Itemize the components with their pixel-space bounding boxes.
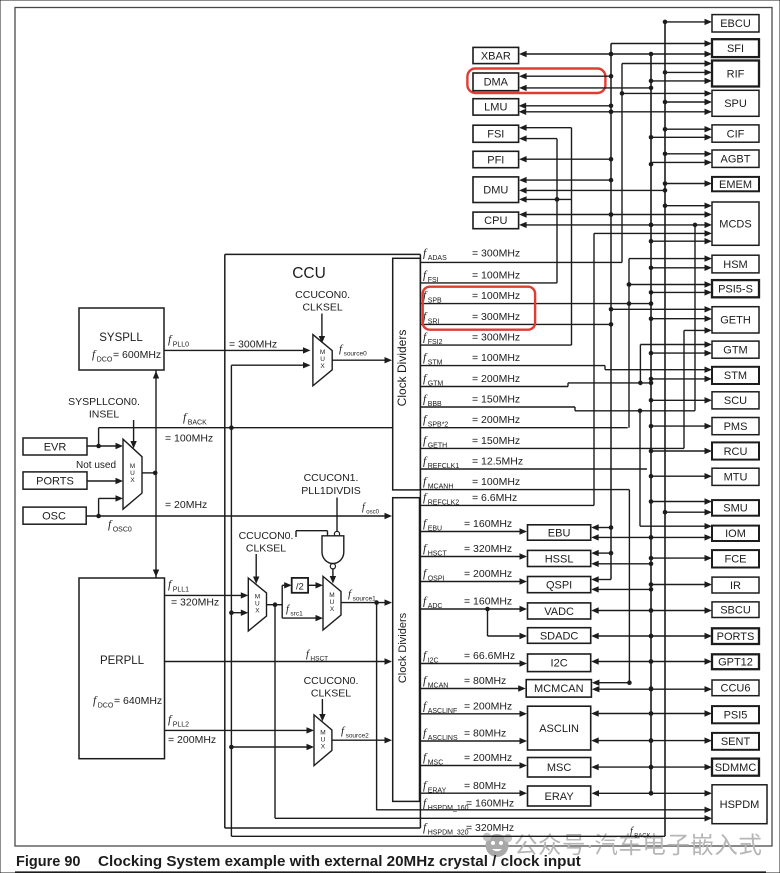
svg-text:= 320MHz: = 320MHz [464,543,512,555]
wire ASCLIN-SENT feed [595,740,707,742]
block RIF [712,61,759,87]
wire MUX1out branch to /2 [281,585,283,618]
wire MCDS feed 1 [665,205,708,207]
block CCU [224,254,226,828]
wire VADC-SBCU feed [595,610,707,612]
wire vertical f_FSI2 net [571,128,573,345]
svg-text:DMA: DMA [484,77,509,89]
svg-text:EBCU: EBCU [720,18,751,30]
svg-text:INSEL: INSEL [89,409,120,421]
wire vertical f_SRI bus [610,44,612,580]
wire SCU feed [651,399,708,401]
wire DMU feed 1 [523,179,611,181]
wire SPU feed 2 [665,101,708,103]
svg-text:X: X [321,743,326,750]
svg-text:/2: /2 [296,582,304,593]
block SENT [712,733,759,750]
wire f_HSCT from PERPLL [165,661,389,663]
wire f_ADC to block [420,608,524,610]
wire GTM feed 2 [651,352,708,354]
svg-text:= 100MHz: = 100MHz [472,269,520,281]
svg-text:Clock Dividers: Clock Dividers [395,330,409,407]
svg-text:X: X [320,363,325,370]
block MSC [528,758,591,778]
block FSI [473,125,519,142]
wire vertical f_BACK bus [664,22,666,836]
wire GTM row jog [567,383,569,387]
wire vertical f_BBB net [639,411,641,526]
highlight red box SPB/SRI rows [423,287,535,330]
wire CPU-MCDS feed [523,214,707,216]
wire f_GETH row line [420,447,684,449]
wire GETH feed 2 [651,318,708,320]
svg-text:= 320MHz: = 320MHz [466,822,514,834]
svg-text:= 160MHz: = 160MHz [466,797,514,809]
svg-text:U: U [330,599,335,606]
wire gate output to MUX1b [332,569,334,579]
wire f_source2 [332,739,388,741]
svg-text:= 600MHz: = 600MHz [113,349,161,361]
block PORTS (input) [23,472,87,489]
svg-text:= 300MHz: = 300MHz [472,311,520,323]
svg-text:SPU: SPU [724,98,747,110]
svg-text:M: M [130,463,135,470]
wire f_ASCLINF to block [420,713,524,715]
svg-text:= 200MHz: = 200MHz [464,568,512,580]
wire OSC to mux branch [98,498,100,516]
svg-text:EMEM: EMEM [719,179,752,191]
svg-text:EVR: EVR [44,442,67,454]
svg-text:CCU: CCU [292,265,326,282]
wire HSSL feed 1 [595,552,611,554]
svg-text:CCUCON1.: CCUCON1. [304,472,359,484]
block MTU [712,468,759,485]
wire f_ADC branch to SDADC [485,607,490,612]
svg-text:PLL1DIVDIS: PLL1DIVDIS [301,485,361,497]
block I2C [528,654,591,672]
block SCU [712,392,759,409]
wire f_BACK into MUX1 [231,612,244,614]
wire IR feed [651,584,708,586]
block ASCLIN [528,706,591,750]
svg-text:X: X [330,606,335,613]
block SFI [712,39,759,57]
block ERAY [528,786,591,806]
svg-text:= 80MHz: = 80MHz [464,675,506,687]
wire SPU feed 1 [622,92,708,94]
wire f_FSI row line [420,282,557,284]
wire AGBT feed 1 [665,153,708,155]
svg-text:= 12.5MHz: = 12.5MHz [472,455,523,467]
wire DMU feed 3 [523,198,571,200]
svg-text:= 160MHz: = 160MHz [464,596,512,608]
wire f_SPB row line [420,303,651,305]
wire MCMCAN-CCU6 feed [596,688,708,690]
wire f_BACK 100MHz long line (joins SPB*2 row) [98,428,100,446]
svg-text:Clock Dividers: Clock Dividers [397,612,409,683]
block SBCU [712,602,759,618]
svg-text:SYSPLLCON0.: SYSPLLCON0. [68,396,140,408]
wire f_STM row line [420,365,605,367]
block DMU [473,177,519,203]
svg-text:SBCU: SBCU [720,605,751,617]
svg-text:= 640MHz: = 640MHz [114,695,162,707]
mux MUX_IN (input select) [123,439,142,509]
mux MUX1B (div select) [323,576,341,630]
wire f_MCAN to block [420,688,523,690]
wire IOM feed 1 [640,525,708,527]
highlight red box DMA [467,69,605,94]
block IR [712,577,759,593]
wire EBU feed 1 [595,527,611,529]
wire f_ASCLINS to block [420,740,524,742]
wire mux output to PLL feed node [142,472,155,474]
svg-text:= 66.6MHz: = 66.6MHz [464,650,515,662]
wire SRI row end junction [609,322,614,327]
wire f_ERAY to block [420,792,524,794]
wire f_REFCLK2 row line [420,504,594,506]
svg-text:CLKSEL: CLKSEL [246,543,286,555]
svg-text:RCU: RCU [724,446,748,458]
block SPU [712,90,759,116]
wire f_FSI2 row line [420,344,571,346]
svg-text:= 160MHz: = 160MHz [464,518,512,530]
wire FSI feed 1 [523,127,571,129]
mux MUX1 (PLL1 select) [248,578,266,631]
wire MTU feed [651,475,708,477]
svg-text:MTU: MTU [724,472,748,484]
wire vertical f_GETH net [683,330,685,448]
wire RCU feed [651,450,708,452]
svg-text:M: M [320,349,325,356]
block GTM [712,341,759,358]
svg-text:U: U [320,356,325,363]
svg-text:IOM: IOM [725,528,746,540]
svg-text:GPT12: GPT12 [718,657,753,669]
wire PSI5-S feed 2 [651,291,708,293]
wire HSPDM320 drop from MUX1 output [274,605,276,819]
svg-text:U: U [130,470,135,477]
wire CPU-MCDS feed 2 [523,224,707,226]
wire clksel2 arrow [321,699,323,717]
wire PMS feed [651,425,708,427]
svg-text:ERAY: ERAY [545,791,575,803]
block QSPI [528,577,591,593]
wire GETH feed 3 [684,329,708,331]
svg-text:I2C: I2C [551,658,568,670]
svg-text:Not used: Not used [76,460,116,471]
wire PFI feed [523,158,611,160]
wire I2C-GPT12 feed [595,661,707,663]
wire QSPI feed 1 [595,579,611,581]
wire f_EBU to block [420,531,524,533]
block EBU [528,525,591,540]
svg-text:PSI5-S: PSI5-S [718,284,753,296]
wire EVR to mux [87,445,119,447]
svg-text:FCE: FCE [725,554,747,566]
svg-text:= 320MHz: = 320MHz [171,597,219,609]
block MCDS [712,202,759,245]
nand gate PLL1 divider disable [336,498,338,532]
svg-text:PFI: PFI [487,154,504,166]
wire FCE feed [651,557,708,559]
mux MUX0 (fsource0 select) [313,335,332,386]
svg-text:SCU: SCU [724,395,747,407]
mux MUX2 (PLL2 select) [314,715,332,766]
wire ERAY-HSPDM feed [596,792,708,794]
block PSI5-S [712,280,759,297]
wire MCDS feed 4 [594,232,708,234]
wire vertical f_ADAS net [621,64,623,263]
wire f_MSC to block [420,765,524,767]
block AGBT [712,150,759,167]
wire DMA feed 1 [523,75,611,77]
wire GTM feed 1 [640,344,707,346]
svg-text:OSC: OSC [42,511,66,523]
svg-text:IR: IR [730,580,741,592]
wire vertical f_MCANH net [628,490,630,683]
svg-text:= 150MHz: = 150MHz [472,393,520,405]
block CPU [473,212,519,229]
wire RIF feed 2 [665,71,708,73]
wire f_BACK bottom run [231,835,665,837]
svg-text:CIF: CIF [727,128,745,140]
wire HSPDM feed 2 [377,809,708,811]
svg-text:= 100MHz: = 100MHz [472,290,520,302]
wire ASCLIN-PSI5 feed [595,713,707,715]
wire f_BACK into MUX2 [231,746,310,748]
svg-text:SDMMC: SDMMC [715,762,757,774]
wire f_REFCLK1 row line [420,468,647,470]
wire f_src1 to MUX1b [282,617,319,619]
svg-text:CCUCON0.: CCUCON0. [295,289,350,301]
block XBAR [473,47,519,63]
wire MUX0 input2 [231,364,306,366]
block GETH [712,307,759,333]
wire vertical f_MCDS riser [694,225,696,411]
block SYSPLL [79,308,164,370]
block FCE [712,550,759,567]
svg-text:= 300MHz: = 300MHz [229,339,277,351]
wire vertical f_FSI net [556,139,558,283]
wire f_PLL1 into MUX1 [165,594,245,596]
block MCMCAN [526,680,591,698]
wire LMU feed [523,105,611,107]
wire clksel1 arrow [255,554,257,579]
block divide-by-2 [292,578,308,593]
block EVR [23,438,87,455]
wire SFI feed 1 [611,43,708,45]
wire f_ADAS row line [420,261,622,263]
svg-text:PSI5: PSI5 [724,710,748,722]
wire f_SRI row line [420,323,611,325]
wire DMU feed 2 [523,189,665,191]
wire PORTS to mux [87,480,119,482]
wire RIF feed 1 [622,63,708,65]
wire EBCU feed [665,21,708,23]
block CCU6 [712,680,759,696]
block PMS [712,418,759,435]
svg-text:= 200MHz: = 200MHz [472,414,520,426]
svg-text:= 100MHz: = 100MHz [472,352,520,364]
wire MUX1 output node [267,604,283,606]
block HSM [712,255,759,273]
svg-text:Clocking System example with e: Clocking System example with external 20… [98,853,581,870]
wire HSPDM feed 3 [275,817,708,819]
svg-text:AGBT: AGBT [721,154,751,166]
block VADC [528,603,591,619]
block HSSL [528,550,591,566]
wire SPB row end junction [649,301,654,306]
svg-text:CLKSEL: CLKSEL [311,688,351,700]
wire CIF feed 1 [665,128,708,130]
svg-text:CPU: CPU [484,215,507,227]
svg-text:PORTS: PORTS [36,476,74,488]
wire f_source0 [332,359,388,361]
wire SDADC-PORTS feed [595,635,707,637]
block PSI5 [712,706,759,723]
svg-text:= 200MHz: = 200MHz [464,700,512,712]
svg-text:RIF: RIF [727,68,745,80]
wire f_PLL2 into MUX2 [165,729,311,731]
svg-text:M: M [255,594,260,601]
block SMU [712,500,759,516]
svg-text:VADC: VADC [544,606,574,618]
svg-text:= 150MHz: = 150MHz [472,435,520,447]
wire AGBT feed 2 [651,161,708,163]
svg-text:CCUCON0.: CCUCON0. [239,530,294,542]
svg-text:X: X [130,477,135,484]
block CIF [712,125,759,142]
wire f_GTM row line [420,386,568,388]
svg-text:= 80MHz: = 80MHz [464,780,506,792]
wire QSPI feed 2 [595,588,651,590]
wire HSSL feed 2 [595,563,651,565]
svg-text:STM: STM [724,370,747,382]
wire vertical f_STM net [593,233,595,505]
wire STM feed 2 [651,378,708,380]
block IOM [712,526,759,541]
svg-text:EBU: EBU [548,527,571,539]
block SDMMC [712,759,759,776]
svg-text:ASCLIN: ASCLIN [539,723,579,735]
svg-text:CLKSEL: CLKSEL [302,302,342,314]
svg-text:PORTS: PORTS [717,631,755,643]
block LMU [473,99,519,115]
block HSPDM [712,785,767,824]
svg-text:X: X [255,608,260,615]
svg-text:SDADC: SDADC [540,630,579,642]
wire clksel0 arrow [321,314,323,339]
svg-text:= 100MHz: = 100MHz [165,433,213,445]
block STM [712,367,759,384]
block SDADC [528,628,591,644]
svg-text:GETH: GETH [720,315,751,327]
svg-text:SENT: SENT [721,736,751,748]
svg-text:SMU: SMU [723,503,748,515]
wire f_PLL0 = 300MHz to MUX0 [164,349,307,351]
wire HSM feed 1 [629,258,708,260]
wire f_I2C to block [420,663,524,665]
svg-text:= 200MHz: = 200MHz [464,752,512,764]
block PFI [473,151,519,167]
wire GETH feed 1 [611,308,708,310]
wire HSPDM160 drop [376,603,378,811]
wire BBB row jog [574,407,576,411]
svg-text:QSPI: QSPI [546,579,572,591]
block OSC [23,507,86,524]
wire MCMCAN feed r1 [596,682,630,684]
wire FSI feed 2 [523,138,557,140]
svg-text:XBAR: XBAR [481,50,511,62]
svg-text:DMU: DMU [483,185,508,197]
wire fosc vertical to SYSPLL and PERPLL [155,370,157,578]
svg-text:MCDS: MCDS [719,218,751,230]
svg-text:MCMCAN: MCMCAN [534,683,584,695]
svg-text:SFI: SFI [727,43,744,55]
svg-text:M: M [320,729,325,736]
wire MSC-SDMMC feed [595,766,707,768]
wire XBAR-SFI feed [523,53,707,55]
svg-text:= 300MHz: = 300MHz [472,332,520,344]
block EMEM [712,177,759,191]
svg-text:HSPDM: HSPDM [720,799,760,811]
block PORTS [712,628,759,644]
wire INSEL select arrow [133,420,135,444]
block EBCU [712,15,759,32]
wire f_HSCT to block [420,556,524,558]
svg-text:= 200MHz: = 200MHz [472,373,520,385]
wire f_source1 [341,602,388,604]
wire LMU-SPU feed [523,111,708,113]
svg-text:Figure 90: Figure 90 [16,854,80,870]
svg-text:LMU: LMU [484,102,507,114]
svg-text:FSI: FSI [487,129,504,141]
svg-text:U: U [321,736,326,743]
wire vertical f_SPB*2 net [628,259,630,428]
svg-text:CCU6: CCU6 [721,683,751,695]
svg-text:GTM: GTM [723,344,747,356]
svg-text:SYSPLL: SYSPLL [99,332,143,344]
svg-text:HSSL: HSSL [545,553,574,565]
wire vertical f_SPB bus [650,54,652,793]
wire STM row jog into STM box [604,366,606,370]
svg-text:U: U [255,601,260,608]
svg-text:MSC: MSC [547,762,572,774]
wire EBU-IOM feed [595,536,707,538]
svg-text:= 6.6MHz: = 6.6MHz [472,492,517,504]
block PERPLL [79,578,165,759]
svg-text:= 80MHz: = 80MHz [464,728,506,740]
block RCU [712,442,759,459]
svg-text:CCUCON0.: CCUCON0. [304,675,359,687]
block Clock Dividers 1 [393,258,421,490]
wire MCDS feed 5 [651,240,708,242]
wire HSM feed 2 [651,267,708,269]
svg-text:= 100MHz: = 100MHz [472,476,520,488]
wire DMA feed 2 [523,87,651,89]
svg-text:= 200MHz: = 200MHz [168,734,216,746]
block GPT12 [712,654,759,669]
wire SMU feed 2 [665,511,708,513]
svg-text:PERPLL: PERPLL [100,655,145,667]
watermark logo [483,833,512,857]
wire GTM box feed riser [639,345,641,383]
svg-text:= 20MHz: = 20MHz [165,499,207,511]
block DMA [473,73,519,91]
wire CIF feed 2 [651,136,708,138]
svg-text:M: M [329,592,334,599]
